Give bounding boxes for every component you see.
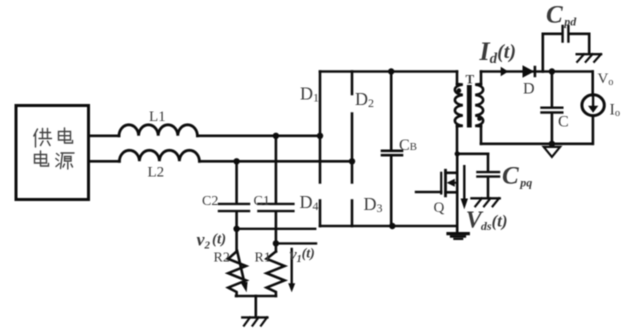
svg-text:L1: L1 — [149, 109, 166, 125]
svg-text:C2: C2 — [202, 194, 218, 209]
svg-text:C: C — [558, 114, 569, 131]
svg-text:Id(t): Id(t) — [479, 37, 517, 67]
svg-text:Cpd: Cpd — [546, 2, 577, 29]
svg-text:v1(t): v1(t) — [290, 247, 315, 266]
svg-text:L2: L2 — [148, 165, 165, 181]
svg-text:R1: R1 — [255, 251, 271, 266]
svg-text:Io: Io — [610, 102, 621, 120]
svg-text:Cpq: Cpq — [502, 163, 532, 190]
svg-text:CB: CB — [399, 137, 417, 154]
svg-text:v2(t): v2(t) — [197, 230, 227, 252]
svg-text:T: T — [466, 72, 475, 87]
svg-text:C1: C1 — [254, 194, 270, 209]
svg-text:D3: D3 — [364, 194, 383, 215]
svg-text:D2: D2 — [355, 89, 374, 110]
svg-text:D4: D4 — [300, 192, 319, 213]
svg-text:Q: Q — [434, 200, 445, 216]
svg-text:Vds(t): Vds(t) — [466, 207, 508, 233]
svg-text:R2: R2 — [214, 251, 230, 266]
svg-text:D1: D1 — [300, 84, 319, 105]
svg-text:Vo: Vo — [598, 71, 614, 88]
svg-text:D: D — [523, 81, 535, 98]
